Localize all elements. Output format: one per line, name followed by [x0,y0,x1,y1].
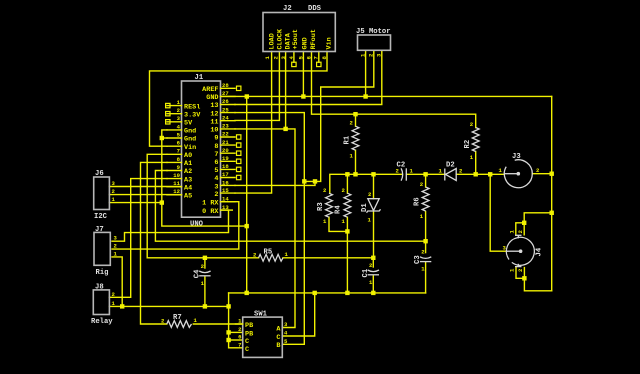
wire RF detector line left part with R3 corner [330,174,402,193]
capacitor C3 [414,249,431,273]
svg-text:Vin: Vin [325,37,333,49]
svg-text:18: 18 [222,163,229,170]
wire J1.26 to J5.3 [235,50,382,104]
wire R4 top stub [346,174,348,193]
wire RF line D2 to J3.1 [456,173,504,175]
connector J1 UNO box [182,74,221,229]
svg-text:C3: C3 [414,255,422,264]
svg-text:I2C: I2C [94,213,108,221]
svg-text:5: 5 [214,167,218,175]
connector J8 Relay box [91,283,113,326]
wire RF line between C2 and D2 [407,173,445,175]
J1 right pin stubs [221,88,236,210]
resistor R3 [317,187,332,225]
svg-text:C1: C1 [362,268,370,277]
svg-text:RESl: RESl [184,103,200,111]
connector J4 jack [503,230,544,273]
svg-text:23: 23 [222,123,229,130]
wire J2.6 RFout down and right to R2 [312,52,476,128]
wire J1.16 jog to pin25 net [235,181,315,185]
wire GND main: J1.27 right across to far right vertical [221,95,552,97]
wire J2.7 no-connect stub [318,52,320,63]
wire SW1.6 branch [229,339,243,341]
svg-text:J1: J1 [195,74,204,82]
svg-text:A3: A3 [184,176,192,184]
J1 right pin numbers [222,82,229,211]
resistor R2 [464,121,479,161]
wire C3 top stub [425,241,427,252]
svg-text:R2: R2 [464,140,472,149]
wire J1.23 to SW1.A [235,129,295,328]
connector J6 I2C box [94,170,110,221]
svg-text:12: 12 [210,110,218,118]
wire J6.3 to A4 [109,186,181,188]
wire R5 line A0 to C1 junction [147,154,258,257]
wire J7.3 to J1.13 [112,210,229,241]
svg-text:SW1: SW1 [254,311,268,319]
svg-text:24: 24 [222,114,229,121]
svg-text:GND: GND [302,37,310,49]
wire J7.1 down to GND relay line [112,257,122,307]
svg-text:Vin: Vin [184,144,196,152]
wire A2 line from J1 to R6/C3 [155,171,425,242]
svg-text:28: 28 [222,82,229,89]
resistor R6 [414,181,430,220]
wire R6 top stub [425,174,427,187]
svg-text:17: 17 [222,171,229,178]
switch SW1 box [243,311,283,358]
J1 right NC squares [237,86,241,180]
resistor R1 [344,120,359,160]
svg-text:CLOCK: CLOCK [277,28,285,49]
resistor R4 [335,187,351,225]
svg-text:D2: D2 [446,162,455,170]
wire R7 right to SW1.1 [193,323,242,325]
svg-text:7: 7 [238,341,241,348]
J7 pin numbers [114,235,118,258]
wire A3 to J8.2 [109,179,167,298]
svg-text:4: 4 [214,175,218,183]
wire R2 bottom stub [475,152,477,175]
wire J8.1 GND relay line [109,305,228,307]
svg-text:20: 20 [222,147,229,154]
wire C3 bottom to rail corner [425,262,427,293]
svg-text:R7: R7 [173,314,182,322]
svg-text:21: 21 [222,139,229,146]
svg-text:A4: A4 [184,184,192,192]
svg-text:11: 11 [210,118,218,126]
svg-text:6: 6 [214,159,218,167]
wire C1 bottom to rail [372,276,374,293]
svg-text:J2: J2 [283,5,292,13]
wire J1.24 to J2.2 [235,52,279,121]
svg-text:16: 16 [222,179,229,186]
wire C1 top stub [372,258,374,267]
wire GND right vertical down to J3/J4 [551,96,553,290]
wire Vin top: J2.8 to J1.6 [150,52,328,147]
svg-text:27: 27 [222,90,229,97]
wire J2.5 GND stub [302,52,304,97]
wire C4 bottom to relay GND line [204,277,206,306]
svg-text:A1: A1 [184,160,192,168]
svg-text:B: B [276,342,280,350]
wire R1 bottom stub [355,150,357,174]
SW1 left pin stubs [236,323,243,325]
wire J6.2 to A5 [109,194,181,196]
svg-text:10: 10 [173,172,180,179]
wire C4 top stub from R5 line [204,258,206,268]
connector J5 Motor box [356,28,391,50]
wire SW1.2 branch [229,331,243,333]
wire GND left vertical x=246.7 [246,96,248,293]
capacitor C2 horizontal [396,162,414,181]
svg-text:13: 13 [222,204,229,211]
svg-text:R3: R3 [317,202,325,211]
J1 left pin numbers [173,99,180,195]
wire J1.25 to SW1.B [235,113,304,345]
wire R3 R4 bottom tie [329,217,347,231]
svg-text:12: 12 [173,188,180,195]
svg-text:26: 26 [222,98,229,105]
J4 pin entry tick marks [515,234,522,236]
SW1 right pin names [276,325,281,350]
svg-text:5V: 5V [184,120,193,128]
wire J6.1 to GND vertical [109,202,161,204]
J5 pin numbers 1-3 [360,53,383,57]
connector J2 DDS box [263,5,335,52]
svg-text:C: C [245,338,249,346]
wire D1 bottom down to R5 line [373,212,375,258]
wire bottom rail [229,292,426,294]
J8 pin numbers [112,291,116,307]
svg-text:9: 9 [214,135,218,143]
svg-text:R6: R6 [414,197,422,206]
diode D1 zener [361,191,381,224]
diode D2 [439,162,464,181]
svg-text:R1: R1 [344,135,352,144]
svg-text:10: 10 [210,127,218,135]
svg-text:25: 25 [222,106,229,113]
capacitor C1 [362,262,379,286]
svg-text:7: 7 [313,56,320,59]
wire A1 to R7 [141,162,168,324]
wire J2.3 DATA down to J1.23 line [285,52,287,129]
svg-text:J5 Motor: J5 Motor [356,28,391,36]
wire J5.2 to pin25 net [304,50,374,181]
svg-text:PB: PB [245,322,253,330]
svg-text:13: 13 [210,102,218,110]
svg-text:A5: A5 [184,193,192,201]
resistor R7 horizontal [161,314,198,327]
svg-text:0 RX: 0 RX [202,208,219,216]
J2 pin numbers 1-8 [264,56,328,60]
svg-text:7: 7 [214,151,218,159]
wire R6 bottom to A2 line junction [425,212,427,242]
svg-text:A2: A2 [184,168,192,176]
svg-text:Rig: Rig [96,269,109,277]
wire J3.1 junction down to J4.3 [490,174,506,251]
svg-text:D1: D1 [361,203,369,212]
SW1 left pin names [245,322,253,354]
svg-text:15: 15 [222,187,229,194]
svg-text:2: 2 [214,191,218,199]
wire J2.1 LOAD down to J1.15 [235,52,272,194]
J6 pin numbers [112,180,116,203]
wire J7.2 to J1.14 [112,202,239,249]
wire J4 top pins to right vertical [516,223,524,235]
wire D1 top stub [373,174,375,198]
svg-text:14: 14 [222,195,229,202]
svg-text:J3: J3 [512,153,521,161]
svg-text:Gnd: Gnd [184,128,196,136]
svg-text:Relay: Relay [91,318,113,326]
svg-text:8: 8 [214,143,218,151]
svg-text:J4: J4 [536,247,544,256]
wire J2.4 no-connect stub [293,52,295,63]
svg-text:22: 22 [222,131,229,138]
svg-text:C: C [276,334,280,342]
svg-text:11: 11 [173,180,180,187]
svg-text:7: 7 [177,148,180,155]
wire rail left end down to relay line and SW1 pins [229,293,243,348]
svg-text:GND: GND [206,94,218,102]
wire J4 bottom pins to right vertical [516,268,524,279]
svg-text:R5: R5 [264,249,273,257]
wire J1.5 Gnd stub [162,137,167,139]
J1 right pin names [202,86,219,216]
svg-text:J7: J7 [95,226,104,234]
connector J3 jack [499,153,541,188]
svg-text:19: 19 [222,155,229,162]
svg-text:UNO: UNO [190,221,204,229]
svg-text:3.3V: 3.3V [184,111,201,119]
resistor R5 horizontal [253,249,289,262]
J1 left pin stubs [167,106,182,195]
wire J1.4 Gnd elbow [162,130,247,226]
wire R5 right to C1 top [283,257,373,259]
capacitor C4 [193,263,210,287]
wire SW1.C to rail [282,293,314,336]
SW1 right pin numbers [284,321,288,345]
svg-text:C: C [245,346,249,354]
svg-text:DDS: DDS [308,5,322,13]
svg-text:J6: J6 [95,170,104,178]
svg-text:+5out: +5out [292,29,300,49]
svg-text:LOAD: LOAD [269,33,277,49]
wire J3.2 to right vertical [532,173,551,175]
svg-text:J8: J8 [95,283,104,291]
connector J7 Rig box [94,226,110,277]
wire R3R4 junction down to rail [346,231,348,293]
svg-text:1 RX: 1 RX [202,199,219,207]
svg-text:RFout: RFout [310,29,318,49]
J1 left pin names [184,103,201,200]
wire R1 top stub [355,114,357,126]
svg-text:A0: A0 [184,152,192,160]
svg-text:AREF: AREF [202,86,218,94]
SW1 left pin numbers [238,318,242,349]
wire J5.1 down to GND [365,50,367,96]
svg-text:R4: R4 [335,205,343,214]
svg-text:C4: C4 [193,269,201,278]
svg-text:Gnd: Gnd [184,136,196,144]
J1 left NC squares pins 1-3 [166,103,170,124]
